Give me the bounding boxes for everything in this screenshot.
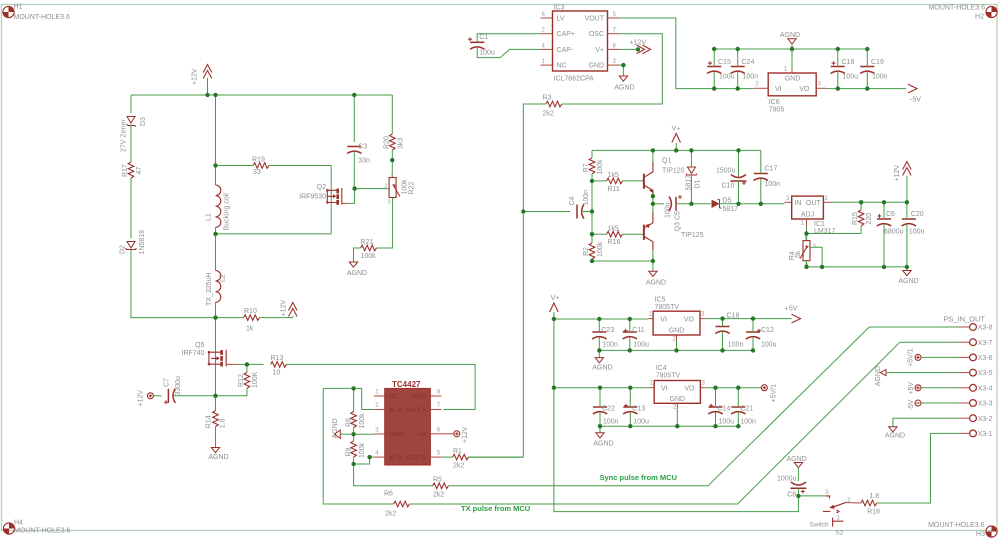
svg-text:R7: R7 bbox=[583, 163, 590, 172]
svg-text:OSC: OSC bbox=[589, 31, 604, 38]
svg-text:R5: R5 bbox=[433, 476, 442, 483]
svg-text:3: 3 bbox=[613, 59, 617, 65]
svg-text:OUT: OUT bbox=[806, 200, 822, 207]
wire +12V rail top-left bbox=[131, 94, 392, 96]
svg-text:100u: 100u bbox=[479, 50, 495, 57]
svg-text:C11: C11 bbox=[632, 327, 644, 334]
svg-text:IN B: IN B bbox=[389, 454, 402, 461]
svg-text:C23: C23 bbox=[601, 327, 614, 334]
wire X3-7 to TX bbox=[900, 341, 958, 343]
wire OUT rail bbox=[832, 201, 907, 203]
svg-text:H3: H3 bbox=[976, 531, 985, 538]
svg-text:100u: 100u bbox=[665, 202, 672, 218]
wire IC4 output rail bbox=[705, 387, 761, 389]
mount hole H3 bbox=[928, 522, 997, 538]
wire D1 column bbox=[690, 150, 692, 203]
svg-text:IRF740: IRF740 bbox=[182, 350, 205, 357]
wire C14 column bbox=[715, 388, 717, 427]
svg-text:3: 3 bbox=[702, 381, 706, 387]
ground AGND above C8 bbox=[786, 456, 806, 481]
capacitor C13 100u bbox=[623, 404, 649, 426]
svg-text:Switch: Switch bbox=[810, 521, 830, 528]
svg-text:1: 1 bbox=[650, 381, 654, 387]
wire C15 column bbox=[713, 49, 715, 89]
ground AGND below C22 bbox=[593, 426, 613, 447]
svg-text:Q5: Q5 bbox=[195, 342, 204, 349]
ground AGND below X3-2 bbox=[885, 427, 905, 440]
svg-text:IC5: IC5 bbox=[655, 297, 666, 304]
capacitor C3 33n bbox=[347, 144, 370, 165]
svg-text:R14: R14 bbox=[206, 415, 213, 428]
svg-text:+12V: +12V bbox=[462, 426, 469, 443]
capacitor C24 100n bbox=[731, 59, 759, 81]
capacitor C18 100n bbox=[715, 313, 743, 349]
svg-text:GND: GND bbox=[588, 63, 604, 70]
svg-text:C4: C4 bbox=[569, 196, 576, 205]
svg-text:100u: 100u bbox=[843, 74, 859, 81]
svg-text:IRF9530: IRF9530 bbox=[299, 193, 326, 200]
svg-text:100k: 100k bbox=[359, 413, 366, 429]
wire R14 to AGND bbox=[215, 427, 217, 448]
wire Q3 collector to AGND rail bbox=[652, 250, 654, 261]
svg-text:TX pulse from MCU: TX pulse from MCU bbox=[461, 504, 530, 513]
svg-text:+12V: +12V bbox=[192, 68, 199, 85]
svg-text:7: 7 bbox=[613, 28, 617, 34]
resistor R6 2k2 bbox=[384, 491, 410, 518]
svg-text:1.8: 1.8 bbox=[870, 493, 880, 500]
diode D1 5817 vertical bbox=[686, 167, 702, 191]
svg-text:2k2: 2k2 bbox=[453, 463, 464, 470]
supply +12V arrow at R10 bbox=[281, 300, 298, 318]
svg-text:+V: +V bbox=[418, 431, 427, 438]
svg-text:IC6: IC6 bbox=[769, 99, 780, 106]
supply +12V arrow at V+ pin8 bbox=[620, 40, 651, 54]
svg-text:R9: R9 bbox=[346, 447, 353, 456]
wire R7 column bbox=[591, 150, 593, 157]
svg-text:R1: R1 bbox=[453, 448, 462, 455]
svg-text:2: 2 bbox=[542, 28, 546, 34]
svg-text:R3: R3 bbox=[543, 94, 552, 101]
wire R6 to TX diagonal bbox=[410, 342, 900, 504]
svg-text:100k: 100k bbox=[597, 241, 604, 257]
svg-text:C8: C8 bbox=[787, 492, 796, 499]
svg-text:1: 1 bbox=[542, 59, 546, 65]
resistor R21 100k bbox=[361, 239, 377, 260]
capacitor C11 100u bbox=[623, 327, 649, 349]
svg-text:Bucking coil: Bucking coil bbox=[224, 193, 231, 231]
svg-text:R22: R22 bbox=[408, 182, 415, 195]
svg-text:X3-3: X3-3 bbox=[978, 401, 993, 408]
ground AGND below C20 bbox=[898, 267, 918, 285]
svg-text:AGND: AGND bbox=[885, 433, 905, 440]
svg-text:100n: 100n bbox=[602, 342, 618, 349]
wire X3-2 to AGND bbox=[893, 418, 958, 427]
wire C6 column bbox=[883, 202, 885, 267]
wire C8 to junction bbox=[797, 488, 799, 496]
resistor R16 1k5 bbox=[592, 225, 644, 246]
svg-text:2k2: 2k2 bbox=[543, 111, 554, 118]
wire R21 to AGND bbox=[354, 248, 361, 262]
svg-text:100n: 100n bbox=[743, 74, 759, 81]
svg-text:VI: VI bbox=[661, 385, 668, 392]
svg-text:100n: 100n bbox=[603, 419, 619, 426]
svg-text:1500u: 1500u bbox=[716, 168, 736, 175]
ground AGND below R21 bbox=[347, 262, 367, 277]
supply -5V arrow bbox=[908, 84, 921, 103]
wire C4 right to base column bbox=[582, 211, 592, 213]
ground AGND below Q3 bbox=[646, 261, 666, 287]
ground AGND below IC3 bbox=[614, 76, 634, 92]
wire C5 to D5 bbox=[676, 203, 711, 205]
ground AGND above 7905 bbox=[780, 32, 800, 49]
wire C11 column bbox=[629, 319, 631, 350]
IC IC4 7805TV bbox=[650, 365, 706, 411]
wire C3 column bbox=[353, 95, 355, 142]
resistor R19 bbox=[216, 157, 332, 176]
trimmer R4 5k bbox=[789, 236, 817, 268]
svg-text:5817: 5817 bbox=[723, 206, 739, 213]
wire C20 column bbox=[906, 202, 908, 267]
svg-text:2k2: 2k2 bbox=[433, 492, 444, 499]
supply +12V arrow at LM317 bbox=[894, 162, 911, 203]
trimmer R22 100k bbox=[385, 172, 416, 206]
svg-text:GND: GND bbox=[785, 76, 801, 83]
svg-text:TIP120: TIP120 bbox=[662, 168, 685, 175]
svg-text:5k: 5k bbox=[795, 250, 802, 258]
svg-text:R19: R19 bbox=[252, 157, 265, 164]
svg-text:2: 2 bbox=[385, 184, 388, 190]
svg-text:VI: VI bbox=[660, 316, 667, 323]
svg-text:+12V: +12V bbox=[281, 300, 288, 317]
svg-text:33: 33 bbox=[253, 169, 261, 176]
svg-text:X3-6: X3-6 bbox=[978, 355, 993, 362]
svg-text:100n: 100n bbox=[909, 229, 925, 236]
wire R9 node to pin4 IN-B bbox=[354, 457, 374, 464]
svg-text:3: 3 bbox=[825, 490, 829, 496]
wire Q1 emitter node bbox=[652, 196, 654, 204]
svg-text:Q3: Q3 bbox=[675, 222, 682, 231]
svg-text:100n: 100n bbox=[765, 181, 781, 188]
svg-text:1k: 1k bbox=[246, 326, 254, 333]
connector pin X3-3 bbox=[958, 400, 992, 408]
wire R9 node to R5 bbox=[354, 464, 433, 486]
wire TX node to pin2 IN-A bbox=[354, 388, 374, 409]
svg-text:100k: 100k bbox=[597, 159, 604, 175]
svg-text:R6: R6 bbox=[384, 491, 393, 498]
svg-text:LM317: LM317 bbox=[814, 228, 836, 235]
capacitor C17 100n bbox=[754, 166, 781, 188]
svg-text:100k: 100k bbox=[361, 253, 377, 260]
svg-text:2: 2 bbox=[375, 403, 379, 409]
capacitor C14 100u bbox=[708, 404, 734, 426]
wire C7 to Q5 source node bbox=[173, 395, 216, 397]
wire L2 to Q5 drain bbox=[215, 318, 217, 396]
svg-text:100n: 100n bbox=[872, 74, 888, 81]
svg-text:100u: 100u bbox=[761, 342, 777, 349]
resistor R1 2k2 bbox=[442, 448, 469, 470]
wire C19 column bbox=[866, 49, 868, 89]
wire R20 to R22 bbox=[391, 150, 393, 178]
wire Q5 source node to R14 bbox=[215, 396, 217, 411]
wire C17 column bbox=[760, 150, 762, 203]
svg-text:27V Zener: 27V Zener bbox=[121, 119, 128, 152]
svg-text:2: 2 bbox=[673, 405, 677, 411]
capacitor C23 100n bbox=[592, 327, 618, 349]
wire C24 column bbox=[737, 49, 739, 89]
svg-text:R10: R10 bbox=[244, 308, 257, 315]
wire TX node top bbox=[323, 387, 353, 389]
wire V+ down to IC4 and PS_IN bbox=[553, 319, 555, 512]
connector pin X3-1 bbox=[958, 430, 992, 438]
wire L1 column top bbox=[215, 95, 217, 165]
inductor L1 Bucking coil bbox=[206, 165, 231, 234]
svg-text:V+: V+ bbox=[551, 295, 560, 302]
wire C3 to gate node bbox=[353, 152, 355, 189]
svg-text:1N5819: 1N5819 bbox=[139, 230, 146, 255]
svg-text:X3-7: X3-7 bbox=[978, 340, 993, 347]
svg-text:R8: R8 bbox=[346, 418, 353, 427]
svg-text:AGND: AGND bbox=[614, 85, 634, 92]
wire pin3 GND node bbox=[354, 433, 374, 435]
svg-text:C22: C22 bbox=[602, 406, 615, 413]
wire R19 to Q2 drain column bbox=[330, 166, 332, 234]
svg-text:8: 8 bbox=[613, 43, 617, 49]
svg-text:3: 3 bbox=[701, 312, 705, 318]
svg-text:1.8: 1.8 bbox=[220, 418, 227, 428]
svg-text:C18: C18 bbox=[727, 313, 740, 320]
svg-text:100k: 100k bbox=[401, 179, 408, 195]
svg-text:R12: R12 bbox=[238, 374, 245, 387]
svg-text:7805TV: 7805TV bbox=[656, 373, 681, 380]
wire +12V circle to C7 bbox=[153, 395, 161, 397]
diode D2 1N5819 bbox=[120, 230, 147, 255]
capacitor C15 100u bbox=[707, 59, 735, 81]
connector pin X3-7 bbox=[958, 339, 992, 347]
svg-text:ICL7662CPA: ICL7662CPA bbox=[554, 76, 595, 83]
transistor Q5 IRF740 bbox=[182, 342, 238, 367]
svg-text:L2: L2 bbox=[220, 274, 227, 282]
IC U IC3 ICL7662CPA bbox=[541, 5, 620, 83]
svg-text:1: 1 bbox=[784, 67, 788, 73]
svg-text:C14: C14 bbox=[718, 406, 731, 413]
svg-text:2: 2 bbox=[756, 81, 760, 87]
svg-text:1k5: 1k5 bbox=[608, 225, 619, 232]
wire R22 wiper to R21 bbox=[377, 198, 393, 249]
svg-text:47: 47 bbox=[136, 167, 143, 175]
wire IC4 GND to rail bbox=[676, 409, 678, 426]
svg-text:C16: C16 bbox=[842, 59, 855, 66]
svg-text:C24: C24 bbox=[742, 59, 755, 66]
svg-text:GND: GND bbox=[669, 328, 685, 335]
svg-text:SHD: SHD bbox=[412, 393, 426, 400]
wire GND pin to AGND rail bbox=[791, 49, 793, 69]
svg-text:S: S bbox=[813, 244, 817, 250]
svg-text:C1: C1 bbox=[479, 34, 488, 41]
resistor R2 100k bbox=[583, 241, 604, 261]
svg-text:33n: 33n bbox=[358, 158, 370, 165]
svg-text:3300u: 3300u bbox=[175, 376, 182, 396]
svg-text:3: 3 bbox=[818, 81, 822, 87]
capacitor C1 100u bbox=[468, 34, 495, 56]
transistor Q2 IRF9530 bbox=[299, 184, 348, 205]
svg-text:AGND: AGND bbox=[208, 454, 228, 461]
wire Q1 collector to rail bbox=[652, 150, 654, 162]
switch S2 bbox=[810, 490, 861, 536]
svg-text:NC: NC bbox=[389, 393, 399, 400]
svg-text:100k: 100k bbox=[359, 442, 366, 458]
svg-text:X3-1: X3-1 bbox=[978, 431, 993, 438]
svg-text:C15: C15 bbox=[718, 59, 731, 66]
svg-text:3: 3 bbox=[375, 428, 379, 434]
wire VI input bbox=[714, 88, 754, 90]
svg-text:3: 3 bbox=[786, 196, 790, 202]
svg-text:+5V/1: +5V/1 bbox=[907, 348, 914, 367]
wire D3 to R17 bbox=[130, 125, 132, 163]
svg-text:IC1: IC1 bbox=[814, 221, 825, 228]
wire C21 column bbox=[737, 388, 739, 427]
capacitor C20 100n bbox=[902, 211, 925, 236]
svg-text:C5: C5 bbox=[674, 211, 681, 220]
wire TX loop left bbox=[323, 388, 393, 504]
resistor R5 2k2 bbox=[433, 476, 449, 498]
svg-text:D3: D3 bbox=[140, 117, 147, 126]
capacitor C6 6800u bbox=[877, 211, 904, 236]
resistor R8 100k bbox=[346, 388, 367, 434]
svg-text:X3-2: X3-2 bbox=[978, 416, 993, 423]
resistor R10 1k bbox=[216, 308, 293, 332]
ground AGND at X3-5 bbox=[875, 366, 958, 386]
wire gate node to R22 bbox=[355, 188, 389, 190]
wire V+ PS_IN to C8 node bbox=[554, 496, 799, 512]
wire IC4 input rail bbox=[554, 387, 650, 389]
wire ADJ node bbox=[807, 227, 862, 241]
diode D5 5817 bbox=[712, 197, 739, 213]
svg-text:7905: 7905 bbox=[769, 107, 785, 114]
diode D3 27V zener bbox=[121, 117, 148, 153]
svg-text:5: 5 bbox=[437, 451, 441, 457]
svg-text:6: 6 bbox=[437, 428, 441, 434]
IC IC5 7805TV bbox=[648, 297, 705, 343]
svg-text:100n: 100n bbox=[740, 419, 756, 426]
wire X3-8 to sync bbox=[869, 326, 958, 328]
svg-text:AGND: AGND bbox=[646, 280, 666, 287]
svg-text:D5: D5 bbox=[723, 197, 732, 204]
wire AGND rail 7905 bbox=[714, 48, 867, 50]
svg-text:X3-4: X3-4 bbox=[978, 385, 993, 392]
svg-text:H2: H2 bbox=[975, 13, 984, 20]
svg-text:OUT B: OUT B bbox=[406, 454, 426, 461]
svg-text:TX_325uH: TX_325uH bbox=[206, 273, 213, 306]
resistor R17 bbox=[122, 162, 143, 178]
svg-text:NC: NC bbox=[557, 63, 567, 70]
mount hole H1 bbox=[3, 4, 70, 22]
mount hole H2 bbox=[929, 4, 998, 20]
wire Q2 gate to node bbox=[349, 189, 355, 204]
svg-text:IN: IN bbox=[794, 200, 801, 207]
svg-text:C19: C19 bbox=[871, 59, 884, 66]
wire OSC pin7 to R3 bbox=[562, 34, 663, 104]
wire C18 column bbox=[722, 319, 724, 351]
wire V+ rail IC5 bbox=[554, 318, 649, 320]
svg-text:IC3: IC3 bbox=[554, 5, 565, 12]
connector pin X3-4 bbox=[958, 384, 992, 392]
wire Q5 gate to R13 bbox=[238, 363, 264, 365]
supply +5V arrow bbox=[785, 306, 801, 323]
svg-text:VI: VI bbox=[775, 86, 782, 93]
svg-text:100u: 100u bbox=[633, 419, 649, 426]
svg-text:1: 1 bbox=[375, 390, 379, 396]
wire D2 to bottom-left corner bbox=[131, 250, 216, 318]
wire IC5 output rail bbox=[705, 318, 792, 320]
svg-text:100K: 100K bbox=[252, 371, 259, 388]
svg-text:Q2: Q2 bbox=[317, 184, 326, 191]
wire R17 to D2 bbox=[130, 178, 132, 238]
svg-text:C7: C7 bbox=[164, 378, 171, 387]
wire D5 to LM317 IN bbox=[720, 203, 785, 205]
svg-text:R17: R17 bbox=[122, 164, 129, 177]
capacitor C7 3300u bbox=[164, 376, 183, 404]
svg-text:S2: S2 bbox=[835, 529, 843, 536]
svg-text:AGND: AGND bbox=[592, 365, 612, 372]
svg-text:IN A: IN A bbox=[389, 407, 402, 414]
svg-text:AGND: AGND bbox=[875, 366, 882, 386]
supply V+ arrow push-pull bbox=[672, 126, 681, 151]
resistor R9 100k bbox=[346, 434, 367, 464]
svg-text:1000u: 1000u bbox=[777, 476, 797, 483]
svg-text:AGND: AGND bbox=[347, 270, 367, 277]
svg-text:R21: R21 bbox=[361, 239, 374, 246]
svg-text:100u: 100u bbox=[633, 342, 649, 349]
wire C22 column bbox=[599, 388, 601, 427]
svg-text:R13: R13 bbox=[271, 355, 284, 362]
svg-text:+12V: +12V bbox=[138, 390, 145, 407]
resistor R13 10 bbox=[271, 355, 287, 377]
wire bottom rail Q3 bbox=[592, 260, 653, 262]
svg-text:IC4: IC4 bbox=[656, 365, 667, 372]
svg-text:+12V: +12V bbox=[630, 40, 647, 47]
svg-text:1k5: 1k5 bbox=[608, 172, 619, 179]
wire R7 to base node A bbox=[591, 174, 593, 241]
svg-text:C17: C17 bbox=[765, 166, 778, 173]
capacitor C4 100n bbox=[569, 190, 590, 219]
svg-text:D1: D1 bbox=[695, 179, 702, 188]
svg-text:MOUNT-HOLE3.6: MOUNT-HOLE3.6 bbox=[14, 527, 71, 534]
wire bottom rail LM317 bbox=[807, 261, 907, 267]
wire C16 column bbox=[837, 49, 839, 89]
wire C12 column bbox=[752, 319, 754, 351]
wire VOUT pin5 to -5V rail bbox=[620, 18, 715, 89]
wire C10 column bbox=[738, 150, 740, 203]
connector pin X3-5 bbox=[958, 369, 992, 377]
svg-text:3: 3 bbox=[388, 200, 391, 206]
svg-text:Q1: Q1 bbox=[662, 158, 671, 165]
svg-text:+5V: +5V bbox=[785, 306, 798, 313]
wire R20 column top bbox=[391, 95, 393, 134]
svg-text:100n: 100n bbox=[728, 342, 744, 349]
svg-text:MOUNT-HOLE3.6: MOUNT-HOLE3.6 bbox=[928, 522, 985, 529]
svg-text:6: 6 bbox=[542, 12, 546, 18]
wire R1 to riser bbox=[469, 456, 524, 458]
supply -5V circle at X3-3 bbox=[908, 399, 958, 410]
svg-text:C12: C12 bbox=[761, 327, 774, 334]
resistor R15 220 bbox=[852, 202, 873, 233]
resistor R14 1.8 bbox=[206, 411, 227, 429]
mount hole H4 bbox=[3, 520, 70, 535]
svg-text:X3-5: X3-5 bbox=[978, 370, 993, 377]
wire V+ rail push-pull bbox=[592, 149, 761, 151]
svg-text:220: 220 bbox=[866, 213, 873, 225]
ground AGND left of pin3 bbox=[332, 418, 354, 438]
